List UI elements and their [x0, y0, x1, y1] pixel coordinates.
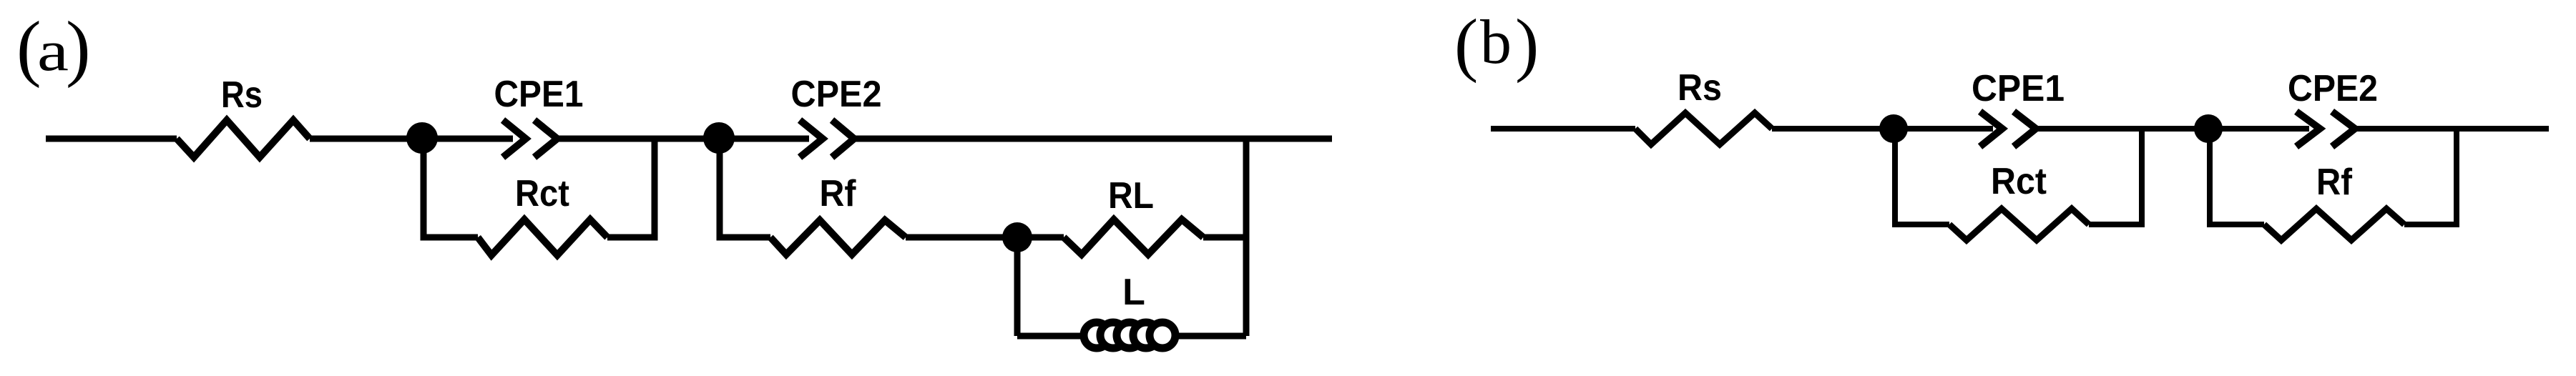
svg-text:Rct: Rct	[1991, 161, 2047, 202]
wire: RL to right vertical	[1203, 234, 1246, 241]
wire: Rf (b) loop left vertical	[2210, 129, 2264, 224]
label (a)	[16, 6, 91, 89]
resistor Rct (b)	[1949, 209, 2089, 240]
svg-text:CPE2: CPE2	[791, 74, 882, 115]
svg-text:a: a	[37, 20, 69, 83]
wire: CPE2 to right end of circuit (a)	[854, 136, 1332, 142]
label (b)	[1454, 4, 1539, 84]
resistor RL	[1064, 219, 1203, 254]
svg-text:): )	[66, 6, 91, 89]
wire: Rct loop left vertical	[423, 139, 478, 237]
node E (junction dot)	[2194, 114, 2223, 143]
resistor Rct	[478, 219, 607, 255]
wire: Rs to CPE1	[310, 136, 513, 142]
svg-text:): )	[1515, 4, 1539, 84]
svg-text:Rs: Rs	[221, 74, 263, 116]
wire: CPE1 to CPE2 (b)	[2036, 126, 2309, 132]
svg-text:b: b	[1480, 8, 1512, 77]
svg-text:Rf: Rf	[820, 173, 857, 214]
svg-text:Rs: Rs	[1678, 67, 1722, 109]
wire: Rct loop right vertical	[607, 139, 655, 237]
resistor Rs (b)	[1635, 113, 1772, 144]
wire: Rs to CPE1 (b)	[1772, 126, 1993, 132]
wire: CPE2 to right end of circuit (b)	[2356, 126, 2549, 132]
capacitor CPE2 (constant phase element chevrons)	[800, 120, 823, 157]
svg-text:Rct: Rct	[515, 173, 569, 214]
wire: Rf to node C	[906, 234, 1064, 241]
wire: left lead of circuit (a)	[46, 136, 177, 142]
node C (junction dot)	[1002, 222, 1032, 252]
svg-text:Rf: Rf	[2316, 162, 2353, 203]
wire: CPE1 to CPE2	[557, 136, 809, 142]
wire: node B down to Rf branch	[720, 138, 770, 237]
wire: Rf (b) loop right vertical	[2404, 129, 2457, 224]
svg-text:(: (	[1454, 4, 1478, 84]
svg-text:CPE1: CPE1	[1972, 68, 2065, 109]
wire: Rct (b) loop left vertical	[1895, 129, 1949, 224]
svg-text:RL: RL	[1108, 175, 1154, 217]
wire: node C down to inductor branch	[1014, 237, 1021, 336]
resistor Rf (b)	[2264, 209, 2404, 240]
inductor L (overlapping loops)	[1084, 322, 1175, 348]
wire: inductor branch bottom	[1017, 333, 1246, 340]
capacitor CPE1 (b) chevrons	[1980, 112, 2002, 147]
capacitor CPE1 (constant phase element chevrons)	[503, 120, 526, 157]
resistor Rs	[177, 120, 310, 157]
svg-text:CPE1: CPE1	[494, 74, 584, 115]
svg-text:CPE2: CPE2	[2288, 68, 2378, 109]
svg-text:L: L	[1122, 272, 1145, 313]
wire: Rct (b) loop right vertical	[2089, 129, 2142, 224]
wire: right vertical of circuit (a)	[1243, 139, 1250, 336]
node B (junction dot)	[703, 122, 735, 154]
wire: left lead of circuit (b)	[1491, 126, 1635, 132]
node A (junction dot)	[406, 122, 438, 154]
node D (junction dot)	[1879, 114, 1908, 143]
capacitor CPE2 (b) chevrons	[2296, 112, 2320, 147]
resistor Rf	[770, 220, 906, 254]
